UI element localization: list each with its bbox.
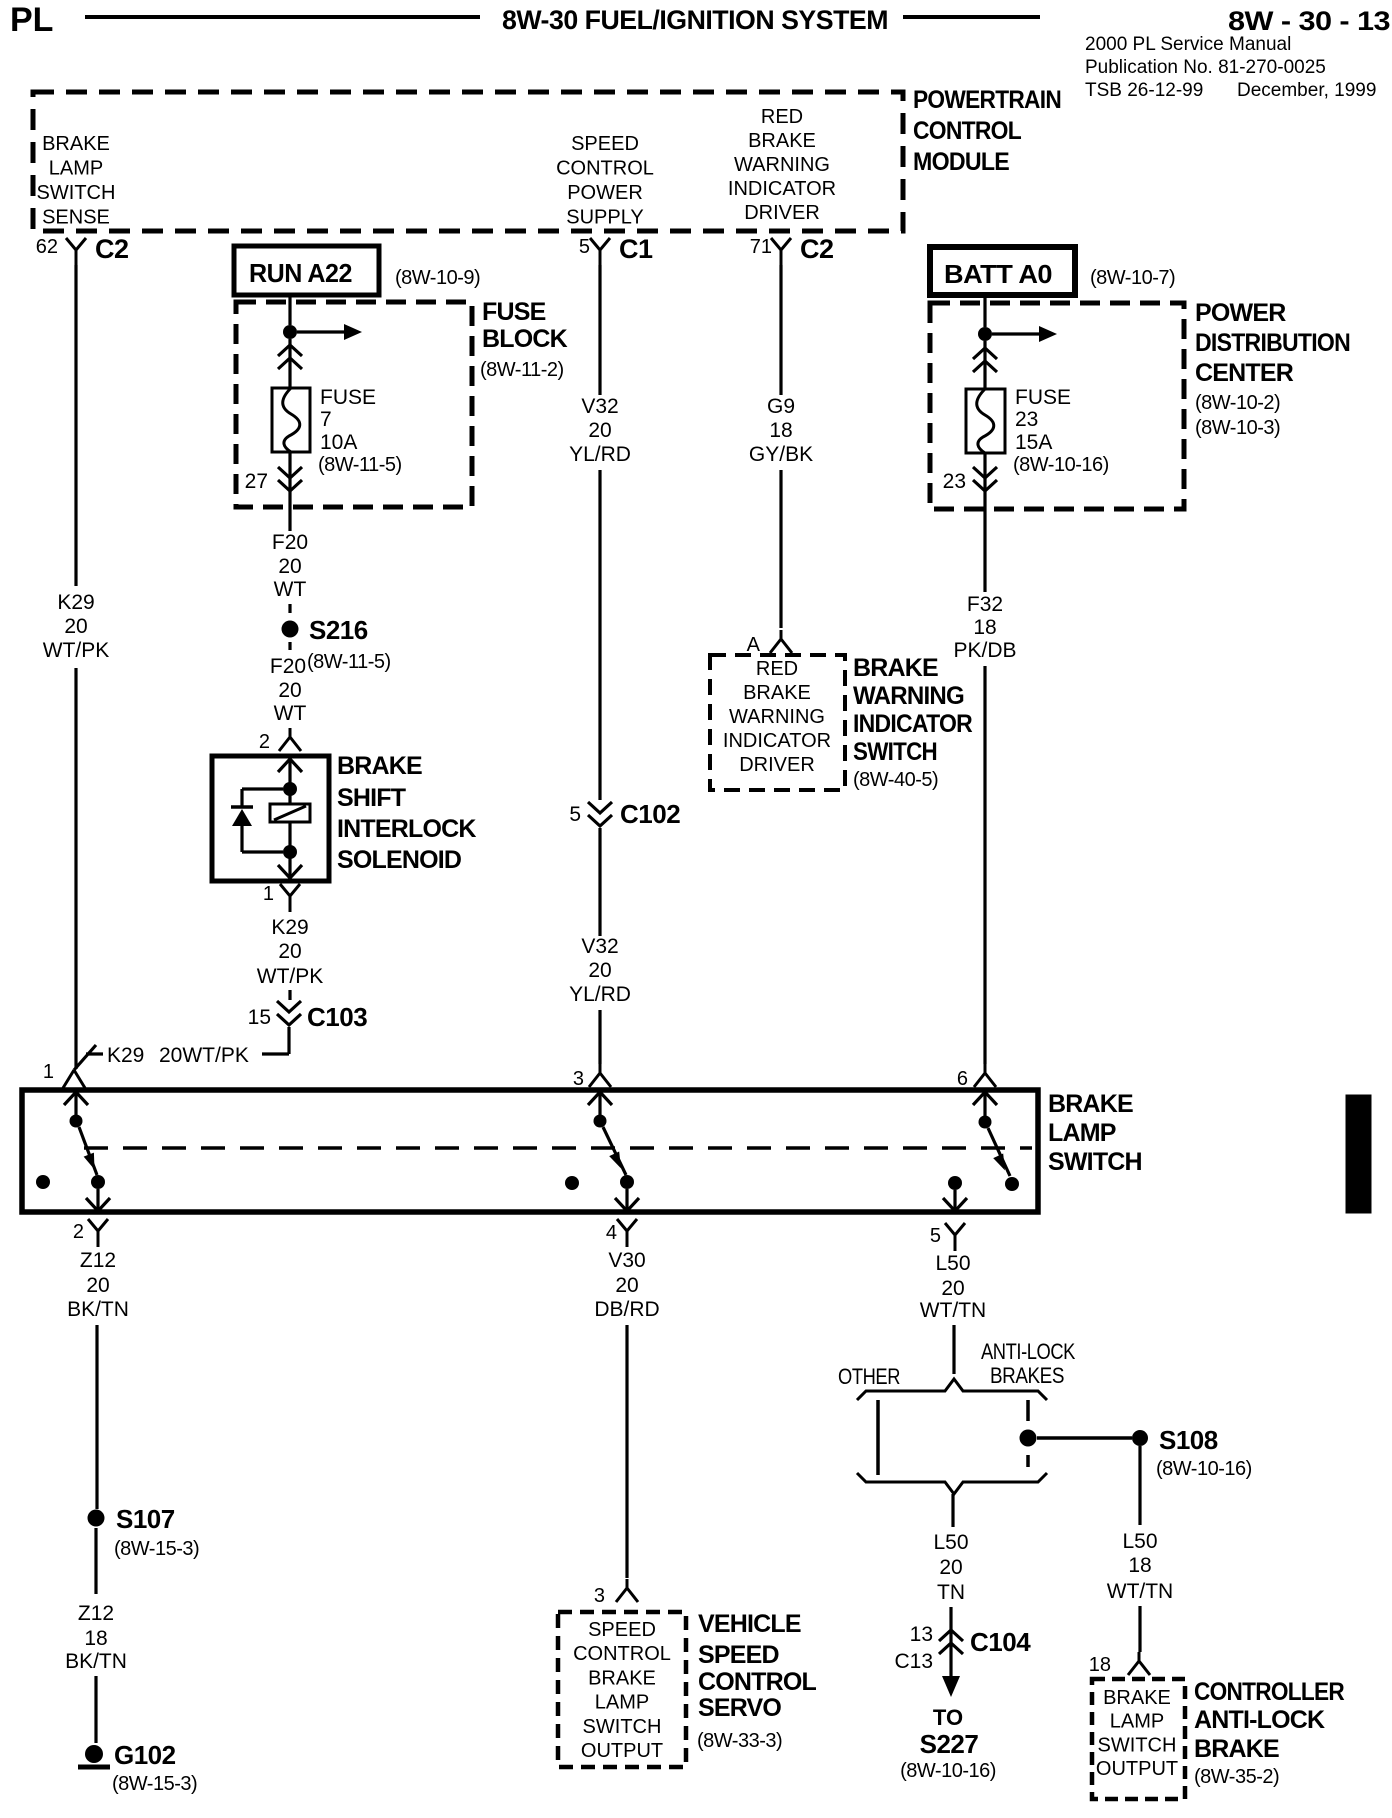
svg-text:20: 20 <box>278 940 301 963</box>
svg-text:WT/TN: WT/TN <box>920 1299 986 1322</box>
svg-text:F20: F20 <box>272 531 308 554</box>
svg-text:6: 6 <box>957 1068 968 1090</box>
pin 62 connector C2 <box>36 234 129 266</box>
pin 1 of brake lamp switch <box>43 1061 85 1088</box>
label ANTI-LOCK BRAKES <box>981 1339 1076 1388</box>
svg-text:OTHER: OTHER <box>838 1364 900 1389</box>
solenoid coil <box>270 795 310 846</box>
svg-text:SWITCH: SWITCH <box>583 1716 662 1738</box>
svg-text:20: 20 <box>86 1274 109 1297</box>
svg-text:BRAKE: BRAKE <box>853 654 938 682</box>
svg-text:C1: C1 <box>619 234 653 264</box>
svg-text:FUSE: FUSE <box>1015 386 1071 409</box>
arrow TO S227 <box>900 1632 996 1782</box>
svg-text:ANTI-LOCK: ANTI-LOCK <box>1194 1706 1325 1734</box>
splice S216 <box>282 615 391 673</box>
wire F32 18 PK/DB <box>953 512 1016 1064</box>
power distribution center dashed box <box>930 303 1184 509</box>
pin 27 chevrons out of fuse block <box>245 452 302 531</box>
fixed contact dot left of switch 1 <box>36 1175 50 1189</box>
wire L50 18 WT/TN <box>1107 1446 1173 1652</box>
svg-text:SPEED: SPEED <box>571 133 639 155</box>
svg-text:WT: WT <box>274 702 307 725</box>
page header <box>10 1 1391 101</box>
wire from C103 to brake lamp switch pin 1 <box>74 1027 289 1070</box>
svg-text:13: 13 <box>910 1623 933 1646</box>
switch contact 1-2 <box>64 1092 110 1211</box>
svg-text:(8W-15-3): (8W-15-3) <box>114 1538 199 1560</box>
svg-text:20WT/PK: 20WT/PK <box>159 1044 249 1067</box>
svg-text:SWITCH: SWITCH <box>1048 1148 1142 1176</box>
svg-text:MODULE: MODULE <box>913 148 1009 176</box>
svg-text:18: 18 <box>973 616 996 639</box>
svg-text:FUSE: FUSE <box>482 298 546 326</box>
svg-text:C104: C104 <box>970 1627 1031 1657</box>
junction dot in PDC <box>978 327 992 341</box>
svg-text:15A: 15A <box>1015 431 1052 454</box>
wire to splice S108 <box>1037 1436 1132 1440</box>
svg-text:(8W-10-7): (8W-10-7) <box>1090 267 1175 289</box>
svg-text:RUN A22: RUN A22 <box>249 258 352 288</box>
svg-text:F20: F20 <box>270 655 306 678</box>
svg-text:BRAKE: BRAKE <box>337 752 422 780</box>
svg-text:BK/TN: BK/TN <box>65 1650 127 1673</box>
svg-text:SWITCH: SWITCH <box>1098 1734 1177 1756</box>
svg-text:C2: C2 <box>800 234 834 264</box>
svg-text:PL: PL <box>10 1 53 39</box>
pin A of red brake warning indicator driver <box>747 630 792 656</box>
page edge tab <box>1346 1095 1371 1213</box>
wire V32 20 YL/RD upper <box>569 265 631 800</box>
svg-text:INTERLOCK: INTERLOCK <box>337 815 476 843</box>
pin 18 of controller anti-lock brake <box>1089 1652 1150 1676</box>
svg-text:LAMP: LAMP <box>1048 1119 1116 1147</box>
svg-text:ANTI-LOCK: ANTI-LOCK <box>981 1339 1076 1364</box>
svg-text:PK/DB: PK/DB <box>953 639 1016 662</box>
controller anti-lock brake title <box>1194 1678 1345 1788</box>
connector box BATT A0 <box>930 247 1175 295</box>
solenoid bottom junction dot <box>283 845 297 859</box>
PCM pin label RED BRAKE WARNING INDICATOR DRIVER <box>728 106 836 224</box>
svg-text:(8W-10-2): (8W-10-2) <box>1195 392 1280 414</box>
svg-text:20: 20 <box>941 1277 964 1300</box>
svg-text:8W - 30 - 13: 8W - 30 - 13 <box>1228 6 1391 36</box>
svg-text:(8W-11-5): (8W-11-5) <box>307 651 391 673</box>
red brake warning indicator driver dashed box <box>710 655 845 790</box>
svg-text:POWER: POWER <box>567 182 643 204</box>
svg-text:S227: S227 <box>920 1729 979 1759</box>
svg-text:S216: S216 <box>309 615 368 645</box>
connector chevrons in PDC <box>973 341 997 389</box>
junction dot in fuse block <box>283 325 297 339</box>
svg-text:BRAKE: BRAKE <box>1048 1090 1133 1118</box>
svg-text:15: 15 <box>248 1006 271 1029</box>
bottom split bracket <box>857 1473 1047 1494</box>
svg-text:V32: V32 <box>581 935 618 958</box>
flyback diode <box>231 789 283 852</box>
svg-text:(8W-10-9): (8W-10-9) <box>395 267 480 289</box>
pin 5 connector C1 <box>579 234 653 266</box>
svg-text:INDICATOR: INDICATOR <box>723 730 831 752</box>
svg-text:K29: K29 <box>107 1044 144 1067</box>
svg-text:62: 62 <box>36 236 58 258</box>
svg-text:K29: K29 <box>271 916 308 939</box>
wire L50 20 WT/TN <box>920 1252 986 1374</box>
solenoid top junction dot <box>283 782 297 796</box>
svg-text:BATT A0: BATT A0 <box>944 259 1052 289</box>
svg-text:SERVO: SERVO <box>698 1694 781 1722</box>
svg-text:C13: C13 <box>894 1650 933 1673</box>
svg-text:December, 1999: December, 1999 <box>1237 80 1376 101</box>
svg-text:SPEED: SPEED <box>698 1641 779 1669</box>
svg-text:(8W-40-5): (8W-40-5) <box>853 769 938 791</box>
connector box RUN A22 <box>234 246 480 295</box>
svg-text:20: 20 <box>278 555 301 578</box>
wire Z12 20 BK/TN <box>67 1249 129 1509</box>
pin 71 connector C2 <box>750 234 834 266</box>
svg-text:DRIVER: DRIVER <box>744 202 820 224</box>
svg-text:YL/RD: YL/RD <box>569 983 631 1006</box>
wire Z12 18 BK/TN <box>65 1528 127 1743</box>
pin 5 of brake lamp switch <box>930 1223 965 1251</box>
other-circuits branch wire <box>876 1400 880 1475</box>
svg-text:TSB 26-12-99: TSB 26-12-99 <box>1085 80 1203 101</box>
svg-text:DRIVER: DRIVER <box>739 754 815 776</box>
wire from RUN A22 into fuse block <box>288 295 291 325</box>
svg-text:WARNING: WARNING <box>734 154 830 176</box>
wire L50 20 TN <box>933 1494 968 1634</box>
svg-text:8W-30 FUEL/IGNITION SYSTEM: 8W-30 FUEL/IGNITION SYSTEM <box>502 5 888 35</box>
svg-text:Z12: Z12 <box>80 1249 116 1272</box>
svg-text:BRAKE: BRAKE <box>743 682 811 704</box>
svg-text:FUSE: FUSE <box>320 386 376 409</box>
wire from BATT A0 into PDC <box>983 295 986 327</box>
svg-text:BRAKE: BRAKE <box>1194 1735 1279 1763</box>
svg-text:3: 3 <box>594 1585 605 1607</box>
svg-text:POWERTRAIN: POWERTRAIN <box>913 86 1061 114</box>
svg-text:CONTROL: CONTROL <box>698 1668 817 1696</box>
svg-text:WT: WT <box>274 578 307 601</box>
svg-text:10A: 10A <box>320 431 357 454</box>
svg-text:G9: G9 <box>767 395 795 418</box>
anti-lock branch dashed wire <box>1020 1400 1037 1467</box>
svg-text:18: 18 <box>1128 1554 1151 1577</box>
svg-text:L50: L50 <box>935 1252 970 1275</box>
svg-text:LAMP: LAMP <box>1110 1711 1164 1733</box>
splice S107 <box>88 1504 200 1560</box>
output contact dot of switch 3 <box>943 1176 967 1211</box>
top split bracket <box>857 1379 1047 1400</box>
switch contact 3-4 <box>588 1092 639 1211</box>
svg-text:(8W-11-5): (8W-11-5) <box>318 454 402 476</box>
svg-text:WARNING: WARNING <box>853 682 964 710</box>
fuse block dashed box <box>236 302 472 507</box>
svg-text:SHIFT: SHIFT <box>337 784 406 812</box>
svg-text:1: 1 <box>43 1061 54 1083</box>
svg-text:INDICATOR: INDICATOR <box>728 178 836 200</box>
svg-text:1: 1 <box>263 883 274 905</box>
svg-text:2: 2 <box>73 1221 84 1243</box>
pin 2 of brake lamp switch <box>73 1219 108 1247</box>
svg-text:CONTROLLER: CONTROLLER <box>1194 1678 1345 1706</box>
svg-text:20: 20 <box>588 419 611 442</box>
svg-text:BRAKES: BRAKES <box>990 1363 1064 1388</box>
svg-text:WT/TN: WT/TN <box>1107 1580 1173 1603</box>
pin 6 of brake lamp switch <box>957 1064 996 1090</box>
svg-text:23: 23 <box>1015 408 1038 431</box>
svg-text:POWER: POWER <box>1195 299 1286 327</box>
svg-text:(8W-15-3): (8W-15-3) <box>112 1773 197 1795</box>
wire V32 20 YL/RD lower <box>569 828 631 1064</box>
svg-text:V32: V32 <box>581 395 618 418</box>
svg-text:(8W-10-3): (8W-10-3) <box>1195 417 1280 439</box>
PCM pin label BRAKE LAMP SWITCH SENSE <box>37 133 116 229</box>
svg-text:BRAKE: BRAKE <box>748 130 816 152</box>
svg-text:C103: C103 <box>307 1002 367 1032</box>
svg-text:F32: F32 <box>967 593 1003 616</box>
svg-text:V30: V30 <box>608 1249 645 1272</box>
pin 4 of brake lamp switch <box>606 1219 637 1247</box>
brake lamp switch output dashed box <box>1092 1679 1185 1799</box>
wire G9 18 GY/BK from PCM pin 71 <box>749 265 813 628</box>
switch contact 6-5 <box>973 1092 1019 1191</box>
svg-text:TO: TO <box>933 1705 963 1730</box>
svg-text:BRAKE: BRAKE <box>42 133 110 155</box>
svg-text:2000 PL Service Manual: 2000 PL Service Manual <box>1085 34 1291 55</box>
wire F20 20 WT lower <box>270 642 307 725</box>
svg-text:TN: TN <box>937 1581 965 1604</box>
fuse 23 15A symbol <box>966 386 1109 476</box>
svg-text:20: 20 <box>615 1274 638 1297</box>
svg-text:20: 20 <box>64 615 87 638</box>
pin 1 of solenoid <box>263 883 300 912</box>
svg-text:20: 20 <box>588 959 611 982</box>
svg-text:(8W-10-16): (8W-10-16) <box>900 1760 996 1782</box>
svg-text:2: 2 <box>259 731 270 753</box>
ground G102 <box>78 1740 197 1795</box>
svg-text:LAMP: LAMP <box>49 158 103 180</box>
splice S108 <box>1132 1425 1252 1480</box>
svg-text:(8W-11-2): (8W-11-2) <box>480 359 564 381</box>
brake lamp switch title <box>1048 1090 1142 1176</box>
svg-text:WT/PK: WT/PK <box>257 965 324 988</box>
connector chevrons below junction <box>278 339 302 388</box>
brake lamp switch box <box>22 1090 1038 1212</box>
svg-text:G102: G102 <box>114 1740 176 1770</box>
svg-text:18: 18 <box>1089 1654 1111 1676</box>
svg-text:3: 3 <box>573 1068 584 1090</box>
svg-text:RED: RED <box>756 658 798 680</box>
svg-text:BRAKE: BRAKE <box>1103 1687 1171 1709</box>
svg-text:YL/RD: YL/RD <box>569 443 631 466</box>
connector C102 pin 5 <box>569 799 680 829</box>
svg-text:L50: L50 <box>1122 1530 1157 1553</box>
fuse 7 10A symbol <box>272 386 402 476</box>
svg-text:(8W-10-16): (8W-10-16) <box>1156 1458 1252 1480</box>
brake shift interlock solenoid box <box>212 756 329 881</box>
svg-text:LAMP: LAMP <box>595 1692 649 1714</box>
svg-text:OUTPUT: OUTPUT <box>1096 1758 1178 1780</box>
svg-text:5: 5 <box>579 236 590 258</box>
svg-text:BRAKE: BRAKE <box>588 1667 656 1689</box>
PCM pin label SPEED CONTROL POWER SUPPLY <box>556 133 654 229</box>
svg-text:S107: S107 <box>116 1504 175 1534</box>
svg-text:INDICATOR: INDICATOR <box>853 710 973 738</box>
feed arrow in PDC <box>992 326 1057 342</box>
connector C104 pin 13 C13 <box>894 1623 1031 1673</box>
svg-text:Z12: Z12 <box>78 1602 114 1625</box>
svg-text:WT/PK: WT/PK <box>43 639 110 662</box>
svg-text:CONTROL: CONTROL <box>573 1643 671 1665</box>
svg-text:GY/BK: GY/BK <box>749 443 813 466</box>
svg-text:K29: K29 <box>57 591 94 614</box>
svg-text:CONTROL: CONTROL <box>556 158 654 180</box>
feed arrow to other circuits <box>297 324 362 340</box>
pin 23 chevrons out of PDC <box>943 453 997 512</box>
powertrain control module PCM box <box>33 92 903 231</box>
speed control brake lamp switch output dashed box <box>558 1612 686 1767</box>
pin 3 of vehicle speed control servo <box>594 1579 638 1607</box>
pin 3 of brake lamp switch <box>573 1064 611 1090</box>
svg-text:C102: C102 <box>620 799 680 829</box>
svg-text:SENSE: SENSE <box>42 207 110 229</box>
pin 2 of brake shift interlock solenoid <box>259 728 301 753</box>
svg-text:DISTRIBUTION: DISTRIBUTION <box>1195 329 1350 357</box>
PCM title POWERTRAIN CONTROL MODULE <box>913 86 1061 176</box>
svg-text:OUTPUT: OUTPUT <box>581 1740 663 1762</box>
svg-text:DB/RD: DB/RD <box>594 1298 659 1321</box>
svg-text:(8W-35-2): (8W-35-2) <box>1194 1766 1279 1788</box>
svg-text:7: 7 <box>320 408 332 431</box>
svg-text:5: 5 <box>569 803 581 826</box>
fixed contact dot left of switch 2 <box>565 1176 579 1190</box>
svg-text:Publication No. 81-270-0025: Publication No. 81-270-0025 <box>1085 57 1326 78</box>
svg-text:C2: C2 <box>95 234 129 264</box>
vehicle speed control servo title <box>697 1610 817 1752</box>
svg-text:WARNING: WARNING <box>729 706 825 728</box>
solenoid title <box>337 752 476 874</box>
svg-text:L50: L50 <box>933 1531 968 1554</box>
svg-text:RED: RED <box>761 106 803 128</box>
svg-text:4: 4 <box>606 1222 617 1244</box>
wire out of solenoid with arrow <box>278 858 302 878</box>
wire K29 20 WT/PK from PCM pin 62 <box>43 265 110 1069</box>
svg-text:SOLENOID: SOLENOID <box>337 846 461 874</box>
svg-text:VEHICLE: VEHICLE <box>698 1610 801 1638</box>
svg-text:S108: S108 <box>1159 1425 1218 1455</box>
svg-text:SUPPLY: SUPPLY <box>566 207 643 229</box>
svg-text:SWITCH: SWITCH <box>853 738 937 766</box>
svg-text:18: 18 <box>769 419 792 442</box>
fuse block title <box>480 298 568 381</box>
svg-text:5: 5 <box>930 1225 941 1247</box>
svg-text:BK/TN: BK/TN <box>67 1298 129 1321</box>
svg-text:SPEED: SPEED <box>588 1619 656 1641</box>
svg-text:23: 23 <box>943 470 966 493</box>
svg-text:A: A <box>747 634 761 656</box>
svg-text:(8W-33-3): (8W-33-3) <box>697 1730 782 1752</box>
svg-text:20: 20 <box>939 1556 962 1579</box>
svg-text:20: 20 <box>278 679 301 702</box>
svg-text:71: 71 <box>750 236 772 258</box>
svg-text:18: 18 <box>84 1627 107 1650</box>
svg-text:BLOCK: BLOCK <box>482 325 568 353</box>
wire F20 20 WT upper <box>272 531 308 613</box>
svg-text:27: 27 <box>245 470 268 493</box>
wire into solenoid with arrow <box>278 759 302 783</box>
svg-text:CENTER: CENTER <box>1195 359 1294 387</box>
brake warning indicator switch title <box>853 654 973 791</box>
power distribution center title <box>1195 299 1350 439</box>
connector C103 pin 15 <box>248 1001 368 1032</box>
svg-text:(8W-10-16): (8W-10-16) <box>1013 454 1109 476</box>
svg-text:SWITCH: SWITCH <box>37 182 116 204</box>
svg-text:CONTROL: CONTROL <box>913 117 1021 145</box>
wire V30 20 DB/RD <box>594 1249 659 1578</box>
wire K29 20 WT/PK below solenoid <box>257 916 324 1000</box>
